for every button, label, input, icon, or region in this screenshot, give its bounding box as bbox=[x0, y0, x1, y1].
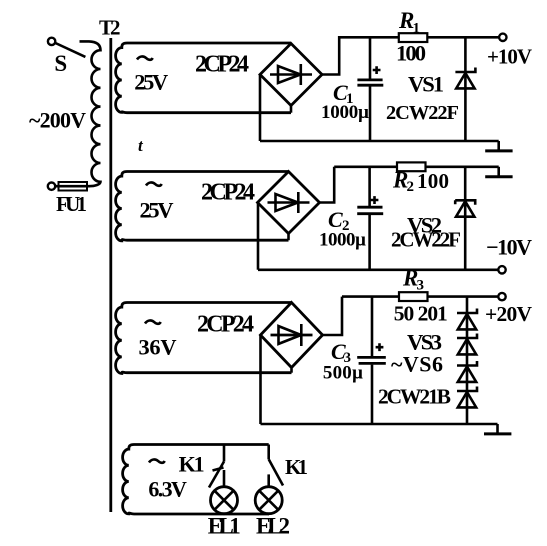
svg-text:VS1: VS1 bbox=[408, 72, 444, 97]
svg-text:~200V: ~200V bbox=[29, 108, 86, 133]
svg-text:S: S bbox=[54, 51, 67, 76]
svg-text:+20V: +20V bbox=[485, 302, 532, 326]
svg-text:36V: 36V bbox=[139, 334, 177, 359]
svg-text:6.3V: 6.3V bbox=[148, 477, 187, 502]
svg-text:T2: T2 bbox=[99, 16, 121, 40]
svg-text:50 201: 50 201 bbox=[394, 302, 448, 326]
svg-text:2CW22F: 2CW22F bbox=[391, 228, 461, 252]
svg-text:K1: K1 bbox=[285, 455, 308, 479]
svg-text:−10V: −10V bbox=[486, 235, 532, 260]
svg-text:2CP24: 2CP24 bbox=[195, 52, 249, 78]
svg-text:3: 3 bbox=[417, 278, 425, 294]
svg-text:500µ: 500µ bbox=[323, 363, 363, 384]
svg-text:25V: 25V bbox=[140, 197, 174, 222]
svg-text:+10V: +10V bbox=[487, 45, 532, 69]
svg-text:100: 100 bbox=[396, 41, 426, 66]
svg-text:25V: 25V bbox=[134, 69, 168, 94]
svg-text:1000µ: 1000µ bbox=[321, 102, 369, 123]
svg-text:1: 1 bbox=[413, 21, 421, 37]
svg-text:2: 2 bbox=[407, 179, 415, 195]
svg-text:2CW22F: 2CW22F bbox=[386, 102, 459, 124]
svg-text:1000µ: 1000µ bbox=[319, 230, 366, 251]
svg-text:2CP24: 2CP24 bbox=[201, 180, 255, 206]
svg-text:FU1: FU1 bbox=[56, 192, 87, 216]
svg-text:2CW21B: 2CW21B bbox=[378, 385, 451, 409]
svg-text:EL2: EL2 bbox=[256, 514, 290, 539]
svg-text:~VS6: ~VS6 bbox=[391, 352, 443, 377]
svg-text:2CP24: 2CP24 bbox=[197, 312, 254, 338]
svg-text:C: C bbox=[328, 207, 343, 232]
svg-text:t: t bbox=[138, 136, 144, 155]
svg-text:100: 100 bbox=[417, 169, 449, 193]
svg-text:EL1: EL1 bbox=[208, 514, 241, 539]
svg-text:K1: K1 bbox=[179, 452, 205, 477]
